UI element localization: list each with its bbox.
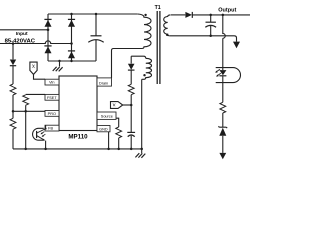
resistor R2 left branch lower xyxy=(10,118,16,129)
node aux phase dot xyxy=(143,74,145,76)
node aux return at rail xyxy=(140,148,143,151)
node C3 rail xyxy=(130,148,133,151)
wire FSET line xyxy=(26,93,45,95)
light arrows from LED xyxy=(215,69,221,76)
node feedback top xyxy=(222,14,225,17)
LED diode (pointing down) xyxy=(219,38,226,102)
wire bottom rail xyxy=(13,148,142,150)
svg-text:PRO: PRO xyxy=(48,112,56,116)
node R3 at bottom rail xyxy=(24,148,27,151)
node opto collector xyxy=(45,128,47,130)
transistor Q opto base-collector-emitter xyxy=(37,129,46,141)
transformer T1 secondary winding xyxy=(164,15,171,36)
transformer T1 primary winding xyxy=(137,14,151,49)
wire between R1 and R2 xyxy=(12,95,14,118)
wire secondary top to output xyxy=(171,14,185,16)
wire Drain to primary bottom xyxy=(112,49,138,78)
diode D1 bridge top-left xyxy=(44,19,51,26)
zener Z1 (cathode up) xyxy=(218,126,227,153)
svg-text:Vin: Vin xyxy=(49,81,54,85)
wire aux top xyxy=(131,56,146,58)
svg-text:Drain: Drain xyxy=(99,82,108,86)
pin PRO box xyxy=(45,111,59,117)
optocoupler U2 LED shell xyxy=(216,68,241,83)
svg-text:85-420VAC: 85-420VAC xyxy=(5,38,36,44)
node R5 rail xyxy=(117,148,120,151)
wire R5 to bottom rail xyxy=(118,138,120,149)
net flag Vin (aux supply node) xyxy=(111,102,123,109)
resistor R5 source xyxy=(116,127,122,138)
node left branch at AC2 xyxy=(12,42,15,45)
wire R6 to zener xyxy=(222,113,224,127)
op-amp U1 MP110 body xyxy=(59,76,97,131)
capacitor C2 output xyxy=(205,15,216,36)
node aux Vin junction xyxy=(130,104,133,107)
node C2 bottom xyxy=(209,35,212,38)
ground arrow feedback xyxy=(219,153,226,159)
resistor R4 aux xyxy=(128,84,134,94)
node top rail right column xyxy=(70,13,73,16)
capacitor C1 bulk xyxy=(88,14,103,61)
pin Vin box xyxy=(45,79,59,85)
node bridge rail right column xyxy=(70,60,72,62)
pin Drain box xyxy=(97,78,112,86)
wire flag to aux node xyxy=(123,104,132,106)
wire secondary bottom to output ground xyxy=(170,36,237,42)
optocoupler U2 phototransistor shell xyxy=(33,128,44,140)
node C2 top xyxy=(209,14,212,17)
svg-text:FB: FB xyxy=(48,127,53,131)
resistor R6 feedback xyxy=(220,102,226,113)
transformer T1 auxiliary winding xyxy=(142,58,152,79)
svg-text:Source: Source xyxy=(101,114,113,118)
light arrows into phototransistor xyxy=(41,132,46,137)
pin FSET box xyxy=(45,94,59,100)
node bridge rail stub xyxy=(58,60,60,62)
net flag Vin (input side) xyxy=(30,62,37,74)
node primary phase dot xyxy=(144,14,146,16)
node secondary phase dot xyxy=(166,34,168,36)
ground chassis under bridge xyxy=(53,61,63,71)
wire top rail xyxy=(48,13,137,15)
ground chassis at rail end xyxy=(135,149,145,158)
node R3 at PRO line xyxy=(24,110,27,113)
diode D7 aux rectifier (pointing down) xyxy=(128,56,135,84)
wire opto emitter to bottom rail xyxy=(45,141,47,149)
resistor R3 FSET xyxy=(23,95,29,105)
wire PRO line xyxy=(13,110,45,112)
node AC2 junction xyxy=(70,42,73,45)
transformer T1 core xyxy=(157,11,160,84)
wire bridge bottom rail xyxy=(48,60,96,62)
svg-text:Output: Output xyxy=(218,8,236,14)
diode D2 bridge bottom-left xyxy=(44,46,51,53)
wire AC input line 2 with hop over left bridge column xyxy=(0,41,72,44)
pin FB box xyxy=(45,125,59,131)
node opto emitter rail xyxy=(44,148,47,151)
diode D6 output rectifier xyxy=(185,12,192,18)
diode D5 left branch (pointing down) xyxy=(10,60,16,85)
ground arrow output xyxy=(233,42,240,49)
svg-text:Input: Input xyxy=(16,31,28,37)
wire Source pin right xyxy=(116,118,119,127)
pin GND box xyxy=(97,126,110,132)
pin Source box xyxy=(97,112,116,119)
wire R3 to bottom rail xyxy=(25,105,27,149)
capacitor C3 Vin bypass xyxy=(127,95,135,149)
wire feedback branch from output rail xyxy=(223,15,225,38)
node PRO divider junction xyxy=(12,110,15,113)
wire bridge right column xyxy=(71,14,73,61)
resistor R1 left branch upper xyxy=(10,84,16,95)
diode D3 bridge top-right xyxy=(68,19,75,26)
wire left HV branch top xyxy=(12,44,14,60)
wire opto collector to FB xyxy=(45,125,47,128)
wire flag to Vin pin xyxy=(34,74,46,79)
svg-text:GND: GND xyxy=(99,127,108,131)
wire bridge left column xyxy=(47,14,49,61)
diode D4 bridge bottom-right xyxy=(68,51,75,58)
wire GND pin to bottom rail xyxy=(108,132,110,149)
node cap C1 top xyxy=(95,13,98,16)
node AC1 junction xyxy=(47,29,50,32)
svg-text:T1: T1 xyxy=(155,5,161,11)
svg-text:FSET: FSET xyxy=(47,96,57,100)
wire aux return to bottom rail xyxy=(141,79,143,149)
svg-text:MP110: MP110 xyxy=(68,134,88,141)
node GND rail xyxy=(107,148,110,151)
wire AC input line 1 xyxy=(0,29,48,31)
wire output rail xyxy=(192,14,250,16)
wire R2 to bottom rail xyxy=(12,129,14,149)
